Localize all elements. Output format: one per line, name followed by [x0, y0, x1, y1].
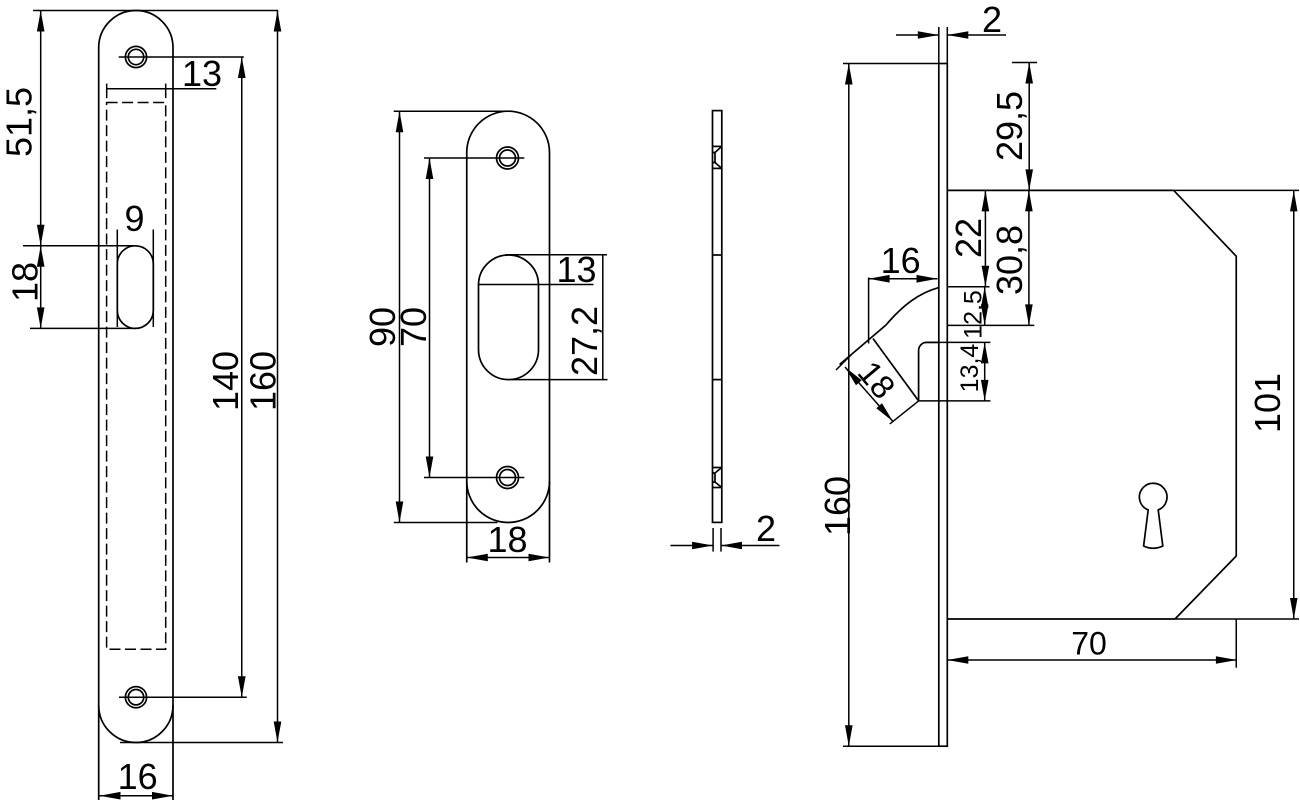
dim 51,5 label [0, 87, 40, 157]
dim 16 hook extension [868, 278, 870, 344]
profile dim 2 line [670, 542, 779, 550]
svg-text:27,2: 27,2 [564, 306, 605, 376]
slot bottom extension [511, 379, 608, 381]
short plate bottom hole center line [424, 477, 524, 479]
svg-text:101: 101 [1247, 373, 1288, 433]
dim 18 left label [5, 262, 46, 302]
svg-text:9: 9 [124, 198, 144, 239]
dim 13 ticks [107, 84, 166, 99]
bottom extension line 160 [120, 742, 283, 744]
top extension line left view [33, 10, 278, 12]
svg-text:18: 18 [851, 354, 903, 406]
dim 70 middle label [393, 307, 434, 347]
dim 18 left [37, 246, 45, 329]
dim 101 label [1247, 373, 1288, 433]
profile slot bottom line [713, 379, 722, 381]
svg-text:2: 2 [756, 508, 776, 549]
dim 70 middle [426, 158, 434, 478]
dim 2 top line [896, 31, 1006, 39]
hook notch [919, 342, 939, 401]
ext line y325.4 [947, 324, 1034, 326]
dim 16 hook line [869, 275, 938, 283]
slot top tangent extension [506, 254, 608, 256]
oval slot front view [117, 246, 153, 329]
dim 18 bottom middle [467, 554, 550, 562]
dim 29,5 label [989, 91, 1030, 161]
slot arc chord extension [479, 284, 594, 286]
lock case outline [947, 190, 1236, 619]
dim 30,8 [1025, 190, 1033, 325]
dim 160 right label [817, 476, 858, 536]
dim 22 [982, 190, 990, 286]
oval top extension line [23, 245, 136, 247]
dim 22 label [948, 218, 989, 258]
profile dim 2 label [756, 508, 776, 549]
svg-text:16: 16 [881, 240, 921, 281]
svg-text:22: 22 [948, 218, 989, 258]
dim 9 extension lines [117, 230, 153, 328]
profile countersink bottom lines [713, 468, 722, 488]
dim 90 label [362, 307, 403, 347]
svg-text:29,5: 29,5 [989, 91, 1030, 161]
keyhole [1139, 483, 1167, 548]
svg-text:70: 70 [393, 307, 434, 347]
svg-text:12,5: 12,5 [960, 290, 988, 339]
dim 70 bottom label [1071, 626, 1107, 662]
profile dim 2 extension lines [713, 528, 721, 552]
dim 2 top label [982, 0, 1002, 40]
svg-text:13: 13 [182, 53, 222, 94]
top screw hole center line [119, 56, 244, 58]
dim 30,8 label [989, 225, 1030, 295]
dim 13,4 [981, 342, 989, 401]
svg-text:2: 2 [982, 0, 1002, 40]
svg-text:13,4: 13,4 [956, 344, 984, 393]
dim 13 label [182, 53, 222, 94]
hook bottom line [919, 400, 991, 402]
short plate bottom hole [497, 467, 519, 489]
dim 16 hook label [881, 240, 921, 281]
dim 70 bottom [947, 656, 1237, 664]
profile countersink bottom [713, 468, 722, 487]
dim 160 right bottom extension [843, 745, 939, 747]
dim 18 hook ext line 2 [890, 401, 919, 424]
top screw hole [125, 46, 146, 67]
short plate bottom extension [394, 522, 498, 524]
profile strip outline [713, 111, 722, 523]
svg-text:30,8: 30,8 [989, 225, 1030, 295]
dim 90 [396, 111, 404, 522]
dim 13 line [107, 88, 217, 90]
profile countersink top [713, 147, 722, 168]
svg-text:16: 16 [118, 756, 158, 797]
dim 160 [274, 11, 282, 743]
dim 140 [238, 57, 246, 697]
short plate top hole [497, 147, 519, 169]
large oval slot [479, 255, 539, 380]
svg-text:160: 160 [243, 351, 284, 411]
dim 12,5 [981, 287, 989, 326]
faceplate front view outline [99, 11, 173, 800]
dim 29,5 top extension [1012, 62, 1037, 64]
dim 13,4 label [956, 344, 984, 393]
lock faceplate side [939, 64, 948, 747]
dim 27,2 line [602, 255, 604, 380]
dim 18 hook ext line 1 [836, 355, 851, 370]
case bottom extension line [1175, 618, 1299, 620]
short plate top extension [394, 110, 510, 112]
svg-text:51,5: 51,5 [0, 87, 40, 157]
ext line y286.8 [948, 286, 989, 288]
svg-text:13: 13 [556, 249, 596, 290]
dim 160 right [845, 64, 853, 747]
dim 29,5 [1025, 63, 1033, 191]
dim 18 hook label [851, 354, 903, 406]
dim 2 top extension lines [939, 27, 948, 64]
dim 101 [1290, 190, 1298, 619]
bottom screw hole center line [119, 696, 247, 698]
oval bottom extension line [30, 327, 136, 329]
profile slot top line [713, 254, 722, 256]
dim 27,2 label [564, 306, 605, 376]
hook top edge [840, 325, 886, 365]
dim 140 label [205, 351, 246, 411]
dim 16 bottom [100, 792, 174, 800]
dim 18 hook line [845, 367, 893, 422]
svg-text:140: 140 [205, 351, 246, 411]
short plate outline [467, 111, 550, 562]
hook notch line right [927, 341, 991, 343]
dim 51,5 [37, 11, 45, 246]
short plate top hole center line [424, 157, 524, 159]
svg-text:70: 70 [1071, 626, 1107, 662]
bottom screw hole [125, 687, 146, 708]
case top extension line [1174, 189, 1299, 191]
dim 70 right extension [1235, 619, 1237, 668]
dim 160 right top extension [843, 63, 939, 65]
hook lower edge [873, 339, 919, 401]
dim 18 bottom middle label [487, 519, 527, 560]
profile countersink top lines [713, 146, 722, 168]
svg-text:160: 160 [817, 476, 858, 536]
dim 16 label [118, 756, 158, 797]
svg-text:18: 18 [487, 519, 527, 560]
dim 9 label [124, 198, 144, 239]
hidden mortise dashed rectangle [107, 103, 166, 650]
dim 13 middle label [556, 249, 596, 290]
hook curve [886, 288, 939, 325]
dim 12,5 label [960, 290, 988, 339]
svg-text:18: 18 [5, 262, 46, 302]
dim 160 label [243, 351, 284, 411]
